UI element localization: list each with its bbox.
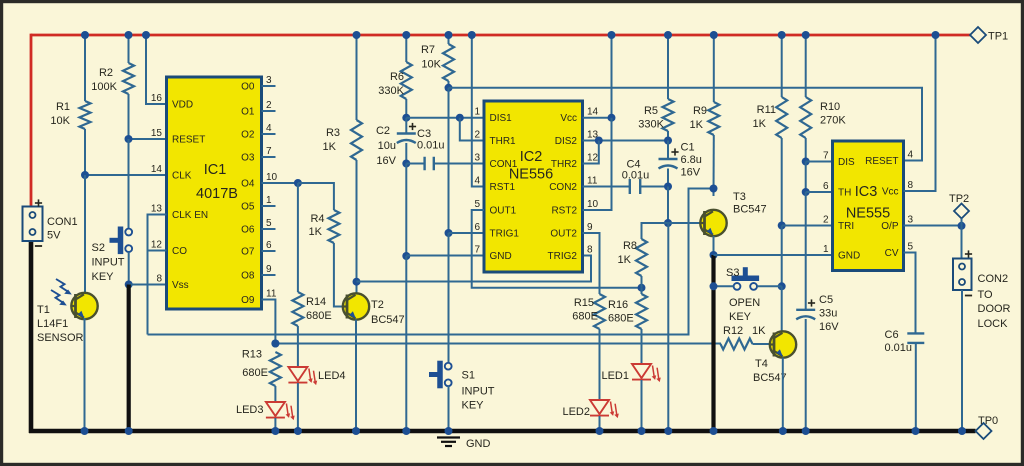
svg-text:OPEN: OPEN (729, 297, 760, 309)
wire R8 top (642, 223, 669, 239)
svg-text:R8: R8 (623, 240, 637, 252)
wire R5 top (667, 35, 669, 99)
node T2-ground (352, 427, 360, 435)
capacitor C5 (796, 309, 815, 311)
wire R15 to LED2 (599, 329, 601, 400)
svg-text:R15: R15 (574, 297, 594, 309)
wire RESET (129, 138, 167, 140)
LED2 (590, 400, 609, 414)
node R2-RESET-S2 (125, 135, 133, 143)
svg-text:DOOR: DOOR (978, 303, 1011, 315)
svg-text:Vcc: Vcc (882, 187, 899, 198)
svg-text:SENSOR: SENSOR (37, 332, 84, 344)
svg-text:330K: 330K (378, 85, 404, 97)
svg-text:DIS: DIS (838, 157, 855, 168)
node RST1-bus (468, 31, 476, 39)
node THR1 tie (456, 114, 464, 122)
wire IC3 reset line (449, 88, 923, 161)
transistor T4 (770, 331, 796, 357)
wire R6 to DIS1 node (405, 99, 407, 118)
svg-text:CO: CO (172, 246, 187, 257)
wire C1 node to T3 base node (667, 187, 669, 224)
svg-text:C2: C2 (376, 125, 390, 137)
wire LED3 to ground (274, 418, 276, 431)
wire R1 to CLK node (84, 129, 86, 175)
svg-text:4: 4 (474, 176, 480, 187)
wire CV to C6 (904, 253, 916, 334)
resistor R6 (401, 62, 412, 99)
node C6-ground (912, 427, 920, 435)
wire T3 base col to ground (667, 223, 669, 431)
svg-text:LED1: LED1 (601, 370, 629, 382)
svg-text:LOCK: LOCK (978, 318, 1009, 330)
svg-text:R7: R7 (421, 44, 435, 56)
svg-text:T1: T1 (37, 304, 50, 316)
node C1-C4 (664, 183, 672, 191)
wire R14 to LED4 (297, 326, 299, 367)
svg-text:R9: R9 (693, 105, 707, 117)
svg-text:6: 6 (823, 181, 829, 192)
svg-text:33u: 33u (819, 308, 837, 320)
wire O/P to CON2 (961, 226, 963, 259)
svg-text:LED2: LED2 (562, 406, 590, 418)
wire LED4 to ground (297, 383, 299, 431)
wire CON2 to ground (961, 290, 963, 431)
svg-text:680E: 680E (306, 310, 332, 322)
svg-text:DIS2: DIS2 (555, 136, 578, 147)
resistor R5 (663, 99, 674, 131)
test point TP2 (954, 204, 969, 219)
svg-text:KEY: KEY (92, 271, 115, 283)
wire IC3 TH (806, 191, 833, 193)
node T1-ground (81, 427, 89, 435)
wire TH node to C5 (805, 192, 807, 310)
resistor R4 (328, 210, 339, 243)
svg-text:C1: C1 (681, 142, 695, 154)
wire R13 to LED3 (274, 386, 276, 402)
svg-text:R13: R13 (242, 349, 262, 361)
svg-text:R5: R5 (644, 105, 658, 117)
svg-text:5: 5 (908, 242, 914, 253)
wire R9 to T3 collector (713, 135, 715, 196)
wire S3 right (757, 285, 782, 287)
svg-text:BC547: BC547 (753, 372, 787, 384)
svg-text:Vcc: Vcc (560, 113, 577, 124)
svg-text:O8: O8 (241, 271, 255, 282)
node VDD-bus (142, 31, 150, 39)
svg-text:10u: 10u (378, 140, 396, 152)
wire R11 top (781, 35, 783, 97)
connector CON1 (23, 207, 43, 242)
wire LED1 to ground (641, 380, 643, 431)
wire R16 to LED1 (641, 329, 643, 364)
svg-text:5V: 5V (47, 230, 61, 242)
switch S2 (118, 227, 124, 255)
svg-text:R14: R14 (306, 296, 326, 308)
node R1-bus (81, 31, 89, 39)
resistor R15 (594, 294, 605, 329)
node reset line (445, 84, 453, 92)
svg-text:16: 16 (151, 93, 163, 104)
svg-text:VDD: VDD (172, 100, 193, 111)
wire THR1 tie (460, 118, 484, 141)
svg-text:IC2: IC2 (520, 149, 543, 165)
wire RESET node to S2 (128, 139, 130, 229)
svg-text:1K: 1K (690, 119, 704, 131)
svg-text:10K: 10K (421, 59, 441, 71)
svg-text:8: 8 (908, 180, 914, 191)
svg-text:R2: R2 (99, 67, 113, 79)
wire T1 collector (84, 175, 86, 293)
svg-text:O4: O4 (241, 179, 255, 190)
svg-text:5: 5 (474, 199, 480, 210)
node LED4-ground (294, 427, 302, 435)
svg-text:O2: O2 (241, 130, 255, 141)
wire R12 to T4 base (753, 343, 771, 345)
node IC3 DIS (802, 158, 810, 166)
svg-text:T4: T4 (755, 358, 768, 370)
resistor R1 (80, 101, 91, 129)
svg-text:R3: R3 (326, 127, 340, 139)
wire CLK (85, 174, 167, 176)
node T2 collector (353, 278, 361, 286)
svg-text:270K: 270K (820, 115, 846, 127)
wire O4 node to R14 (297, 183, 299, 292)
wire T1 emitter to ground (84, 318, 86, 431)
wire THR2 tie (583, 141, 599, 164)
svg-text:8: 8 (587, 245, 593, 256)
resistor R11 (776, 97, 787, 138)
svg-text:T2: T2 (371, 299, 384, 311)
svg-text:BC547: BC547 (371, 314, 405, 326)
wire R8 to node (641, 276, 643, 288)
svg-text:R11: R11 (757, 104, 776, 116)
node R7-bus (445, 31, 453, 39)
wire T3 emitter to ground (thick) (711, 255, 715, 431)
resistor R12 (721, 339, 753, 350)
connector CON2 (953, 259, 972, 291)
svg-text:GND: GND (466, 438, 491, 450)
svg-text:100K: 100K (91, 81, 117, 93)
svg-text:GND: GND (838, 251, 860, 262)
svg-text:1K: 1K (309, 226, 323, 238)
LED1 (632, 364, 651, 378)
svg-text:4: 4 (266, 123, 272, 134)
svg-text:7: 7 (474, 245, 480, 256)
svg-text:TRI: TRI (838, 221, 854, 232)
node C5-ground (802, 427, 810, 435)
svg-text:O6: O6 (241, 225, 255, 236)
wire line A to T3 collector (148, 189, 714, 335)
wire DIS2 (583, 140, 669, 142)
svg-text:7: 7 (266, 146, 272, 157)
node T3 collector (710, 185, 718, 193)
op-amp U1 : IC1 4017B (167, 77, 262, 309)
wire R7 to TRIG1 (448, 88, 450, 233)
node LED2-ground (596, 427, 604, 435)
svg-text:BC547: BC547 (733, 204, 767, 216)
svg-text:LED3: LED3 (236, 404, 264, 416)
svg-text:DIS1: DIS1 (490, 113, 513, 124)
svg-text:0.01u: 0.01u (622, 170, 650, 182)
svg-text:3: 3 (266, 75, 272, 86)
resistor R13 (270, 352, 281, 386)
svg-text:TP2: TP2 (949, 193, 969, 205)
capacitor C1 (659, 158, 678, 160)
node R5-bus (664, 31, 672, 39)
wire O4 to node (276, 182, 298, 184)
svg-text:12: 12 (151, 240, 163, 251)
svg-text:O3: O3 (241, 153, 255, 164)
wire O/P (904, 225, 962, 227)
svg-text:TRIG2: TRIG2 (548, 251, 578, 262)
wire RST1 riser (472, 35, 484, 187)
svg-text:R16: R16 (608, 299, 628, 311)
node S2-ground (125, 427, 133, 435)
svg-text:KEY: KEY (462, 400, 485, 412)
svg-text:10K: 10K (50, 115, 70, 127)
LED4 (288, 367, 307, 381)
test point TP1 (970, 27, 986, 43)
wire T3 base (668, 222, 701, 224)
wire R5 to DIS2 node (667, 131, 669, 141)
capacitor C6 (907, 332, 924, 334)
resistor R3 (351, 120, 362, 160)
wire S3 left (714, 285, 734, 287)
wire R11 to TRI node (781, 138, 783, 226)
svg-text:1K: 1K (323, 141, 337, 153)
svg-text:7: 7 (823, 151, 829, 162)
svg-text:C5: C5 (819, 294, 833, 306)
wire TRIG1 (449, 232, 485, 234)
wire line B to R12 (275, 343, 721, 345)
wire TP2 to O/P (961, 219, 963, 227)
wire C3 left lead (406, 163, 424, 165)
svg-text:TP0: TP0 (978, 415, 998, 427)
svg-text:O/P: O/P (881, 221, 899, 232)
svg-text:S1: S1 (462, 370, 475, 382)
svg-text:RESET: RESET (172, 135, 205, 146)
wire CON2 pin lead (583, 186, 630, 188)
node R10-bus (802, 31, 810, 39)
node IC2 Vcc pin (608, 114, 616, 122)
svg-text:R6: R6 (390, 71, 404, 83)
wire O4 to R4 (298, 183, 334, 210)
svg-text:16V: 16V (376, 155, 396, 167)
svg-text:THR2: THR2 (551, 159, 578, 170)
node LED1-ground (638, 427, 646, 435)
svg-text:13: 13 (151, 204, 163, 215)
capacitor C4 (629, 179, 631, 194)
node T3 emitter gnd (710, 251, 718, 259)
svg-text:2: 2 (474, 130, 480, 141)
node R2-bus (125, 31, 133, 39)
node TRIG1 (445, 229, 453, 237)
node T3col-ground (664, 427, 672, 435)
wire C3 to CON1 pin (434, 163, 484, 165)
node IC2 Vcc bus (608, 31, 616, 39)
wire LED2 to ground (599, 416, 601, 431)
node C2col-ground (402, 427, 410, 435)
svg-text:680E: 680E (608, 313, 634, 325)
svg-text:O1: O1 (241, 107, 255, 118)
wire Vcc riser IC2 (583, 35, 612, 118)
wire Vss (129, 284, 167, 286)
resistor R14 (292, 292, 303, 326)
svg-text:1K: 1K (618, 254, 632, 266)
svg-text:3: 3 (908, 215, 914, 226)
svg-text:KEY: KEY (729, 311, 752, 323)
svg-text:3: 3 (474, 153, 480, 164)
wire IC3 Vcc riser (904, 35, 936, 191)
svg-text:IC3: IC3 (855, 184, 878, 200)
wire R2 to RESET (128, 94, 130, 139)
node TRI (778, 222, 786, 230)
svg-text:NE555: NE555 (846, 206, 890, 222)
node T3col-bus-gnd (710, 427, 718, 435)
node S3 left on gnd line (710, 282, 718, 290)
svg-text:CON2: CON2 (978, 273, 1009, 285)
wire C5 to ground (805, 319, 807, 431)
wire TRI node to S3 node (781, 226, 783, 287)
svg-text:THR1: THR1 (490, 136, 517, 147)
svg-text:4: 4 (908, 150, 914, 161)
wire C1 to CON2 node (667, 169, 669, 187)
op-amp U2 : IC2 NE556 (484, 101, 583, 272)
wire VDD (146, 35, 167, 104)
node S2-Vss (125, 281, 133, 289)
svg-text:11: 11 (266, 289, 277, 300)
svg-text:6: 6 (474, 222, 480, 233)
svg-text:LED4: LED4 (318, 370, 346, 382)
svg-text:9: 9 (587, 222, 593, 233)
wire S1 to ground (448, 386, 450, 431)
svg-text:12: 12 (587, 153, 599, 164)
svg-text:NE556: NE556 (509, 167, 553, 183)
svg-text:1K: 1K (752, 325, 766, 337)
wire IC3 DIS (806, 161, 833, 163)
svg-text:8: 8 (156, 274, 162, 285)
node T3 base (664, 219, 672, 227)
svg-text:14: 14 (151, 164, 163, 175)
wire R2 top (128, 35, 130, 63)
wire R6 top (405, 35, 407, 62)
wire S2 node to ground (thick) (127, 285, 131, 432)
node R8-R16 (638, 284, 646, 292)
svg-text:6.8u: 6.8u (681, 154, 702, 166)
svg-text:O5: O5 (241, 202, 255, 213)
wire R10 top (805, 35, 807, 97)
svg-text:4017B: 4017B (196, 186, 238, 202)
wire C4 to C1 node (640, 186, 668, 188)
svg-text:OUT1: OUT1 (490, 206, 517, 217)
wire T2 emitter to ground (355, 320, 357, 432)
node CON1-C3 (402, 160, 410, 168)
wire R4 to T2 base (334, 243, 343, 307)
svg-text:CLK: CLK (172, 171, 192, 182)
transistor T1 (71, 293, 97, 319)
svg-text:TO: TO (978, 289, 994, 301)
svg-text:680E: 680E (242, 367, 268, 379)
light arrows into T1 (56, 279, 69, 292)
node R6-bus (402, 31, 410, 39)
svg-text:1: 1 (823, 244, 829, 255)
svg-text:INPUT: INPUT (462, 386, 495, 398)
svg-text:C3: C3 (417, 128, 431, 140)
wire TRIG1 to S1 (448, 233, 450, 363)
svg-text:CON2: CON2 (549, 182, 577, 193)
svg-text:S3: S3 (726, 267, 739, 279)
wire T4 emitter to ground (782, 358, 784, 432)
svg-text:RST2: RST2 (551, 206, 577, 217)
svg-text:2: 2 (823, 215, 829, 226)
resistor R8 (636, 239, 647, 276)
wire T3 emitter (713, 236, 715, 257)
svg-text:14: 14 (587, 107, 599, 118)
wire OUT1 route (472, 210, 642, 288)
op-amp U3 : IC3 NE555 (833, 141, 904, 271)
wire CO (148, 250, 167, 252)
node O9-R13 (271, 340, 279, 348)
svg-text:R1: R1 (56, 101, 70, 113)
node IC2 GND (402, 252, 410, 260)
node IC3 Vcc bus (932, 31, 940, 39)
wire R1 top (84, 35, 86, 101)
capacitor C2 (397, 132, 416, 134)
node IC3 TH (802, 188, 810, 196)
svg-text:R10: R10 (820, 101, 840, 113)
wire R7 top (448, 35, 450, 44)
svg-text:O9: O9 (241, 295, 255, 306)
wire C6 to ground (915, 343, 917, 431)
svg-text:680E: 680E (572, 311, 598, 323)
wire R5 node to C1 (667, 141, 669, 160)
node DIS2-R5 (664, 137, 672, 145)
resistor R16 (636, 294, 647, 329)
wire IC3 GND pin (714, 254, 833, 256)
svg-text:1: 1 (266, 195, 272, 206)
svg-text:TP1: TP1 (988, 31, 1008, 43)
node S3 right (778, 282, 786, 290)
wire ground bus (29, 429, 976, 434)
node DIS1 (402, 114, 410, 122)
svg-text:O7: O7 (241, 247, 255, 258)
svg-text:OUT2: OUT2 (550, 229, 577, 240)
wire R9 top (713, 35, 715, 102)
node R1-CLK-T1 (81, 171, 89, 179)
svg-text:TRIG1: TRIG1 (490, 229, 520, 240)
wire DIS1 node to C2 (405, 118, 407, 134)
svg-text:L14F1: L14F1 (37, 318, 68, 330)
wire DIS1 (406, 117, 484, 119)
svg-text:S2: S2 (92, 242, 105, 254)
node S1-ground (445, 427, 453, 435)
wire RST2 tie (583, 118, 612, 210)
svg-text:1: 1 (474, 107, 480, 118)
svg-text:6: 6 (266, 240, 272, 251)
svg-text:INPUT: INPUT (92, 257, 125, 269)
wire R10 to DIS node (805, 138, 807, 162)
wire S3 node to T4 collector (781, 286, 783, 331)
wire +V red bus (31, 34, 970, 37)
wire TRI (782, 225, 833, 227)
svg-text:2: 2 (266, 100, 272, 111)
node R13 wire junction dot (271, 340, 279, 348)
svg-text:R4: R4 (310, 213, 324, 225)
node LED3-ground (271, 427, 279, 435)
svg-text:10: 10 (266, 172, 278, 183)
svg-text:RESET: RESET (865, 156, 898, 167)
